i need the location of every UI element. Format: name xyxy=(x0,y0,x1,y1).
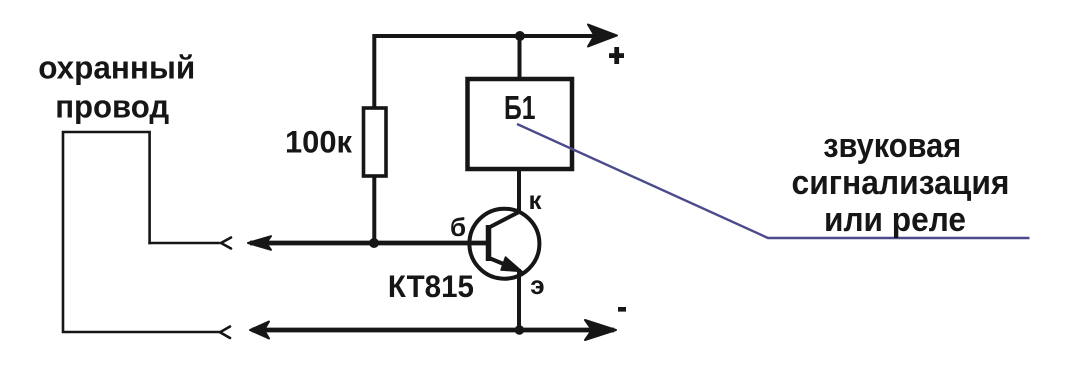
svg-text:к: к xyxy=(529,185,543,215)
svg-text:или реле: или реле xyxy=(824,201,966,239)
svg-text:провод: провод xyxy=(55,89,169,125)
svg-text:охранный: охранный xyxy=(38,50,195,86)
svg-text:сигнализация: сигнализация xyxy=(792,164,1010,202)
svg-text:100к: 100к xyxy=(285,123,352,159)
svg-text:звуковая: звуковая xyxy=(823,127,961,165)
svg-text:э: э xyxy=(530,270,544,300)
svg-text:КТ815: КТ815 xyxy=(388,268,474,304)
svg-text:Б1: Б1 xyxy=(504,89,536,126)
svg-text:б: б xyxy=(450,212,466,242)
